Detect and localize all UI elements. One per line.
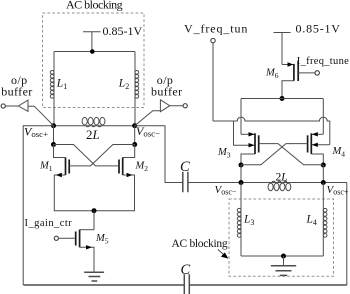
wire: Vosc+ branch to bottom capacitor [23, 126, 53, 285]
inductor 2L (right) [268, 181, 291, 190]
wire: Vosc+ node to M1 drain node [53, 126, 55, 145]
arrow M1 source [56, 173, 62, 177]
terminal V_freq_tun [211, 38, 215, 42]
o/p buffer (right) triangle [160, 100, 183, 112]
wire: Vosc- node to M2 drain node [134, 126, 136, 145]
svg-text:buffer: buffer [151, 84, 183, 98]
wire: node Vosc- to buffer [135, 111, 161, 126]
inductor L2 [134, 52, 136, 126]
svg-text:buffer: buffer [1, 84, 33, 98]
svg-text:AC blocking: AC blocking [172, 238, 228, 250]
svg-text:I_gain_ctr: I_gain_ctr [25, 218, 73, 229]
arrow M3 bulk [249, 143, 255, 147]
wire: tail to M5 drain [93, 211, 95, 230]
node rail (right) [280, 96, 285, 101]
wire: left top rail [54, 51, 135, 53]
transistor M5 [80, 229, 94, 231]
wire: middle capacitor to right resonator [188, 182, 347, 184]
node tail junction [92, 208, 97, 213]
wire: cross-couple gate M3 [259, 144, 324, 165]
ground (left) [84, 272, 104, 281]
wire: right top rail [241, 98, 323, 100]
wire: V_freq_tun horizontal with hops [213, 117, 330, 145]
wire: bulk tap M3 [234, 121, 255, 145]
arrow M5 source [86, 245, 92, 249]
svg-text:V_freq_tun: V_freq_tun [184, 22, 248, 36]
AC blocking dashed box (right) [229, 199, 334, 276]
svg-text:AC blocking: AC blocking [66, 0, 123, 11]
node: rail junction dot [90, 49, 95, 54]
o/p buffer (left) terminal [1, 104, 5, 108]
wire: M4 drain to resonator [322, 165, 324, 183]
svg-text:0.85-1V: 0.85-1V [103, 24, 143, 38]
wire: left resonator line [54, 125, 136, 127]
transistor M6 [282, 64, 294, 66]
capacitor C (bottom) [184, 274, 189, 294]
supply 0.85-1V (left) bar [83, 32, 101, 52]
o/p buffer (left) triangle [5, 100, 28, 111]
wire: cross-couple gate M1 [69, 145, 135, 166]
capacitor C (middle) [183, 172, 188, 193]
transistor M4 [312, 133, 324, 135]
transistor M1 [54, 145, 66, 158]
wire: M4 source vertical [322, 99, 324, 135]
svg-text:2L: 2L [86, 127, 100, 142]
AC blocking dashed box (left) [43, 13, 145, 108]
inductor 2L (left) [82, 117, 105, 126]
svg-text:C: C [180, 159, 190, 175]
wire: buffer to node Vosc+ [28, 106, 54, 126]
inductor L4 [322, 183, 324, 257]
node Vosc+ (left) [51, 123, 56, 128]
wire: cross-couple gate M4 [241, 144, 308, 165]
node Vosc- (left) [132, 123, 137, 128]
node ground junction [281, 254, 286, 259]
svg-text:I_freq_tune: I_freq_tune [297, 56, 349, 67]
wire: M3 drain to resonator [240, 165, 242, 183]
ground (right) [283, 256, 285, 266]
wire: V_freq_tun vertical [212, 43, 214, 121]
wire: M3 source vertical [240, 99, 242, 135]
arrow M2 source [127, 173, 133, 177]
arrow M4 bulk [312, 143, 318, 147]
node M3 drain [239, 163, 244, 168]
arrow AC blocking [218, 249, 225, 255]
terminal I_gain_ctr [54, 236, 58, 240]
o/p buffer (right) terminal [183, 104, 187, 108]
svg-text:C: C [181, 262, 191, 278]
transistor M2 [123, 145, 135, 158]
supply 0.85-1V (right) bar [274, 33, 291, 65]
node M2 drain [132, 142, 137, 147]
wire: right resonator to bottom capacitor [346, 183, 348, 286]
inductor L1 [53, 52, 55, 126]
node M1 drain [51, 142, 56, 147]
node M4 drain [321, 163, 326, 168]
wire: bulk lead M4 [312, 144, 330, 146]
wire: bottom wire left [24, 284, 185, 286]
node right resonator right (Vosc+) [321, 180, 326, 185]
transistor M3 [241, 133, 255, 135]
wire: bottom wire right [189, 284, 346, 286]
wire: cross-couple gate M2 [54, 145, 120, 166]
svg-text:2L: 2L [276, 172, 288, 184]
node right resonator left (Vosc-) [239, 180, 244, 185]
svg-text:0.85-1V: 0.85-1V [296, 22, 341, 36]
wire: L3 to L4 bottom link [241, 255, 323, 257]
inductor L3 [240, 183, 242, 257]
wire: Vosc- to middle capacitor [135, 126, 183, 183]
